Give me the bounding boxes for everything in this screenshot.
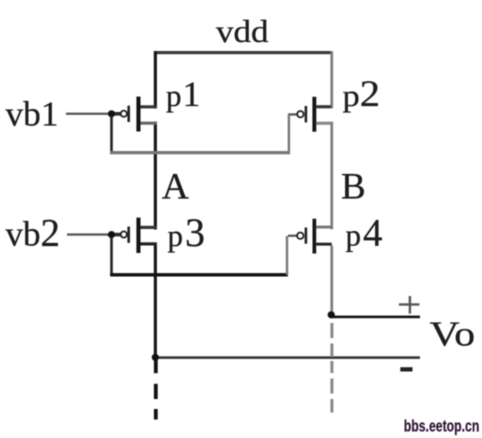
svg-text:B: B	[341, 166, 366, 207]
svg-text:p2: p2	[343, 73, 381, 114]
svg-text:vb2: vb2	[6, 212, 61, 255]
svg-text:p1: p1	[166, 74, 201, 114]
svg-text:A: A	[162, 166, 189, 207]
svg-text:p4: p4	[346, 211, 383, 254]
svg-text:Vo: Vo	[430, 315, 476, 354]
svg-text:bbs.eetop.cn: bbs.eetop.cn	[404, 417, 480, 435]
svg-text:vdd: vdd	[216, 13, 269, 49]
svg-text:p3: p3	[168, 210, 206, 255]
svg-text:vb1: vb1	[6, 95, 59, 134]
